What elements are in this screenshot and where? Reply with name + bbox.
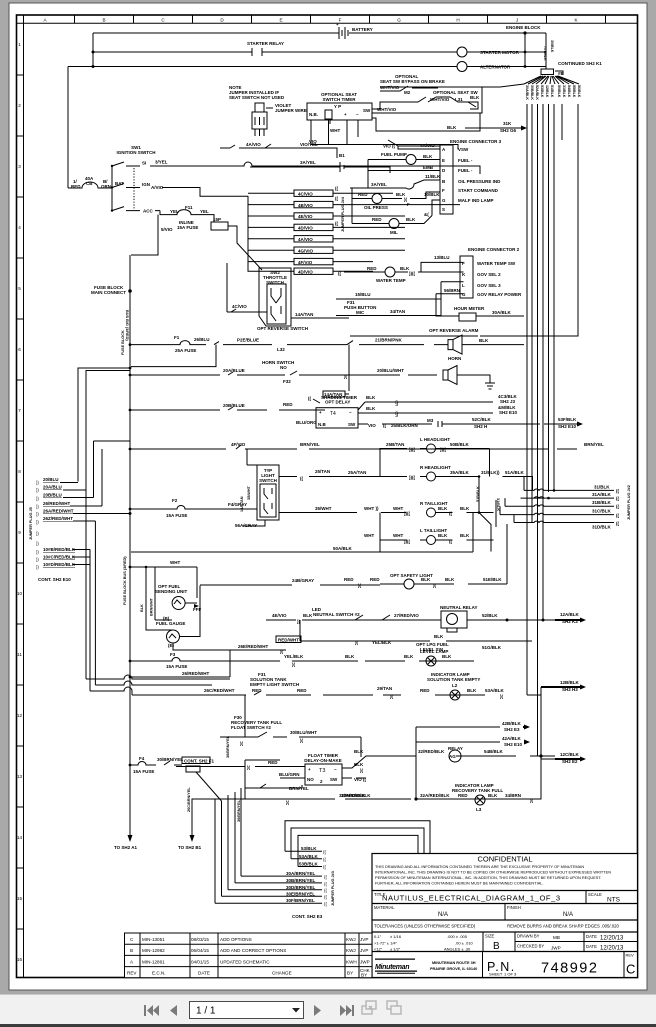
svg-text:JUMPER WIRE: JUMPER WIRE (275, 108, 307, 113)
svg-text:26C/BRN/YEL: 26C/BRN/YEL (187, 787, 191, 812)
svg-text:R HEADLIGHT: R HEADLIGHT (420, 465, 451, 470)
svg-text:SW: SW (363, 108, 371, 113)
svg-text:DATE: DATE (198, 971, 210, 976)
left number band line (23, 15, 25, 978)
svg-text:KWJ: KWJ (346, 948, 356, 953)
svg-text:RED: RED (458, 793, 468, 798)
svg-text:2: 2 (18, 103, 21, 108)
wire vio 25/blk/orn row (358, 417, 566, 429)
svg-text:30A/BLK: 30A/BLK (525, 85, 529, 100)
svg-text:4G/VIO: 4G/VIO (298, 248, 314, 253)
svg-text:SI: SI (142, 161, 146, 166)
svg-text:MATERIAL: MATERIAL (374, 905, 395, 910)
svg-text:55/BLK: 55/BLK (572, 85, 576, 98)
svg-text:REV: REV (626, 953, 635, 958)
svg-text:53A/BLK: 53A/BLK (485, 688, 505, 693)
svg-text:JVP: JVP (360, 937, 368, 942)
svg-text:M2: M2 (404, 90, 411, 95)
svg-text:J: J (516, 18, 518, 23)
wire timer sw to right (372, 87, 482, 113)
svg-text:F32: F32 (283, 379, 291, 384)
svg-text:NTS: NTS (607, 897, 621, 904)
wires j5 to lamp rows (86, 489, 230, 691)
rotated labels left of light switch (240, 485, 251, 512)
svg-text:BLK: BLK (434, 634, 444, 639)
svg-text:4A/VIO: 4A/VIO (298, 237, 313, 242)
revision rows text (127, 937, 371, 978)
svg-text:OPT REVERSE SWITCH: OPT REVERSE SWITCH (257, 326, 308, 331)
grid letter ticks (75, 15, 606, 23)
wire wht fuel feed (129, 560, 197, 620)
svg-text:32/RED/BLK: 32/RED/BLK (418, 749, 445, 754)
svg-text:SIZE: SIZE (485, 934, 495, 939)
svg-text:F3: F3 (170, 652, 176, 657)
svg-text:35/WHT: 35/WHT (247, 485, 251, 500)
svg-text:20A/BLUE: 20A/BLUE (223, 368, 245, 373)
R taillight (279, 501, 494, 517)
label optional seat sw (430, 90, 480, 102)
svg-text:L3: L3 (476, 807, 482, 812)
svg-text:10#B/RED/BLK: 10#B/RED/BLK (43, 547, 76, 552)
wire light switch feed (130, 449, 265, 526)
svg-text:SH2 E3: SH2 E3 (504, 727, 520, 732)
svg-text:12: 12 (17, 713, 23, 718)
svg-text:)(: )( (360, 768, 363, 773)
wire 496 vertical (495, 500, 497, 527)
svg-text:WHT: WHT (393, 533, 403, 538)
horn speaker top (448, 335, 462, 354)
label 7#2 tag (555, 71, 565, 76)
connector j4 column (335, 186, 338, 226)
svg-text:SWITCH: SWITCH (259, 478, 277, 483)
svg-text:5: 5 (18, 286, 21, 291)
row 53a/blk (291, 854, 322, 859)
float timer t3 (304, 753, 342, 785)
svg-text:RED: RED (268, 760, 278, 765)
svg-text:FUSE BLOCK BUS (3/RED): FUSE BLOCK BUS (3/RED) (123, 556, 127, 605)
svg-text:S: S (442, 207, 445, 212)
nested loop 53/blk wires (285, 821, 430, 867)
svg-text:PERMISSION OF MINUTEMAN INTERN: PERMISSION OF MINUTEMAN INTERNATIONAL, I… (375, 875, 601, 880)
svg-text:SEAT SWITCH NOT USED: SEAT SWITCH NOT USED (229, 95, 285, 100)
arrow to sh2 a1 (114, 815, 138, 850)
svg-text:BLK: BLK (421, 577, 431, 582)
wire 34/tan row (336, 299, 441, 316)
svg-text:JUMPER PLUG J#4: JUMPER PLUG J#4 (341, 196, 345, 232)
svg-text:25/TAN: 25/TAN (315, 469, 330, 474)
svg-text:§: § (395, 401, 398, 407)
svg-text:30/BLU/WHT: 30/BLU/WHT (290, 730, 317, 735)
fuse holder 15P (202, 215, 262, 270)
led neutral switch row (266, 607, 402, 624)
svg-text:WHT )): WHT )) (364, 506, 379, 511)
svg-text:SCALE: SCALE (588, 892, 602, 897)
svg-text:04/01/15: 04/01/15 (191, 959, 209, 964)
svg-text:)(: )( (433, 583, 436, 588)
headlight right vertical (489, 449, 491, 477)
svg-text:42B/BLK: 42B/BLK (502, 721, 522, 726)
svg-text:WHT: WHT (330, 128, 340, 133)
svg-text:BAT: BAT (115, 181, 124, 186)
svg-text:SHEET: SHEET (489, 972, 503, 977)
battery B+ (336, 22, 373, 39)
svg-text:EMB: EMB (423, 165, 434, 170)
svg-text:BLK: BLK (303, 613, 313, 618)
svg-text:RELAY: RELAY (448, 746, 463, 751)
svg-text:MALF IND LAMP: MALF IND LAMP (458, 198, 494, 203)
svg-text:CONTINUED SH2 K1: CONTINUED SH2 K1 (558, 61, 602, 66)
opt lpg row (300, 620, 532, 652)
svg-text:26Z/RED/WHT: 26Z/RED/WHT (43, 516, 73, 521)
svg-text:((: (( (335, 196, 338, 201)
svg-text:26C/RED/WHT: 26C/RED/WHT (204, 688, 235, 693)
arrow 12b/blk sh2 h3 (541, 680, 586, 695)
label 7#t/blk rotated (543, 40, 554, 61)
svg-text:F: F (407, 202, 410, 207)
ignition switch body (111, 162, 140, 212)
first page button (144, 1005, 159, 1016)
svg-text:((: (( (383, 423, 386, 428)
svg-text:WHT: WHT (170, 560, 180, 565)
lower labels underlined (43, 547, 76, 567)
svg-text:FUEL -: FUEL - (458, 168, 473, 173)
size box (483, 932, 515, 952)
svg-text:51E/BLK: 51E/BLK (483, 577, 502, 582)
ground horn (457, 375, 495, 389)
svg-text:20A/BLU: 20A/BLU (43, 485, 62, 490)
svg-text:26/BLU: 26/BLU (194, 337, 210, 342)
svg-text:35A/BLK: 35A/BLK (450, 470, 470, 475)
svg-text:51A/BLK: 51A/BLK (505, 470, 525, 475)
wire vio row (311, 145, 458, 150)
fuel gauge (156, 586, 276, 651)
svg-text:L2: L2 (452, 683, 458, 688)
confidential paragraph (375, 864, 611, 886)
svg-text:3A/YEL: 3A/YEL (371, 182, 387, 187)
wire alternator to harness (467, 66, 546, 68)
svg-text:SENDING UNIT: SENDING UNIT (155, 589, 188, 594)
svg-text:21/BRN/PNK: 21/BRN/PNK (375, 338, 403, 343)
label vio pair (309, 139, 396, 149)
f31 solution tank empty switch (250, 672, 299, 687)
svg-text:30B/BLK: 30B/BLK (530, 85, 534, 100)
svg-text:HORN SWITCH: HORN SWITCH (262, 360, 294, 365)
svg-text:.00 ± .010: .00 ± .010 (455, 941, 474, 946)
svg-text:JUMPER PLUG J#2: JUMPER PLUG J#2 (627, 485, 631, 520)
svg-text:)(: )( (240, 741, 243, 746)
svg-text:JUMPER PLUG J5: JUMPER PLUG J5 (29, 507, 33, 540)
zoom out disabled icon (362, 1001, 376, 1014)
svg-text:4: 4 (18, 225, 21, 230)
svg-text:25A/TAN: 25A/TAN (348, 470, 366, 475)
svg-text:((: (( (616, 513, 619, 518)
svg-text:13/BLU: 13/BLU (434, 255, 450, 260)
arrow 12c/blk sh2 e2 (541, 752, 586, 764)
svg-text:HORN: HORN (448, 356, 461, 361)
svg-text:RED: RED (367, 266, 377, 271)
svg-text:#B: #B (558, 71, 565, 76)
logo box (482, 952, 484, 978)
svg-text:N.B: N.B (318, 422, 327, 427)
svg-text:INTERNATIONAL, INC. THIS DRAWI: INTERNATIONAL, INC. THIS DRAWING IS NOT … (375, 870, 611, 875)
blk pair rows (358, 395, 493, 418)
rows 30x/brn/yel (241, 871, 322, 876)
svg-text:F11: F11 (185, 205, 193, 210)
wire starter relay rail (93, 51, 457, 53)
svg-text:OIL PRESS: OIL PRESS (364, 205, 388, 210)
boxed arrows 42b 42a (416, 721, 530, 799)
svg-text:CONT. SH2 F1: CONT. SH2 F1 (184, 759, 215, 764)
wire 24b/gray row (200, 578, 380, 585)
wire conn2 G 56/brn (436, 288, 464, 316)
title block outline (372, 854, 638, 978)
wire engine block drop (525, 33, 546, 69)
svg-text:C: C (626, 962, 635, 977)
throttle switch sw2 (259, 268, 291, 326)
svg-text:MIL: MIL (390, 230, 398, 235)
svg-text:FUEL GAUGE: FUEL GAUGE (156, 621, 185, 626)
svg-text:BRN/YEL: BRN/YEL (300, 442, 320, 447)
wire left bus drop (68, 33, 93, 188)
svg-text:MIC: MIC (356, 310, 365, 315)
svg-text:SH2 E10: SH2 E10 (558, 424, 577, 429)
svg-text:9: 9 (18, 530, 21, 535)
svg-text:MAIN CONNECT: MAIN CONNECT (91, 290, 126, 295)
wire acc row (155, 211, 170, 215)
svg-text:SWITCH TIMER: SWITCH TIMER (323, 97, 357, 102)
connector column j3 (323, 850, 327, 907)
svg-text:RED/WHT: RED/WHT (278, 638, 299, 643)
svg-text:4B/VIO: 4B/VIO (298, 203, 313, 208)
svg-text:WATER TEMP SW: WATER TEMP SW (477, 261, 516, 266)
svg-text:BY: BY (361, 973, 367, 978)
svg-text:31D/BLK: 31D/BLK (592, 525, 612, 530)
top letter band line (17, 22, 638, 24)
label b1 battery (330, 153, 360, 172)
svg-text:YEL/BLK: YEL/BLK (284, 654, 304, 659)
wire 25/tan headlight feed (279, 449, 390, 482)
wire optional seat sw row (372, 97, 478, 109)
svg-text:−: − (334, 767, 337, 772)
svg-text:MINUTEMAN ROUTE 3H: MINUTEMAN ROUTE 3H (432, 961, 476, 965)
wire 3a/yel (250, 167, 390, 173)
svg-text:RED: RED (372, 217, 382, 222)
svg-text:STARTER RELAY: STARTER RELAY (247, 41, 284, 46)
svg-text:((: (( (323, 857, 326, 862)
water temp sender (338, 266, 434, 283)
wire recovery bottom (455, 756, 541, 799)
svg-text:L: L (462, 283, 465, 288)
next page button (314, 1005, 321, 1016)
t3 right wires (342, 749, 391, 782)
svg-text:08/03/15: 08/03/15 (191, 937, 209, 942)
svg-text:START COMMAND: START COMMAND (458, 188, 499, 193)
relay ag row (391, 746, 555, 799)
svg-text:F4: F4 (139, 756, 145, 761)
svg-text:31K: 31K (503, 121, 512, 126)
svg-text:54B/BLK: 54B/BLK (484, 749, 504, 754)
svg-text:56/BRN: 56/BRN (444, 288, 460, 293)
connector harness top (541, 69, 554, 75)
L taillight (364, 513, 494, 545)
svg-text:53/BLK: 53/BLK (540, 85, 544, 98)
label 31K sh2 g6 arrow (465, 121, 527, 133)
svg-text:SW: SW (348, 422, 356, 427)
svg-text:E: E (279, 18, 282, 23)
svg-text:4D/VIO: 4D/VIO (298, 269, 313, 274)
label seat sw bypass on brake (380, 74, 445, 95)
svg-text:TO SH2 A1: TO SH2 A1 (114, 845, 138, 850)
svg-text:15A FUSE: 15A FUSE (133, 769, 154, 774)
svg-text:((: (( (449, 511, 452, 516)
L headlight (386, 437, 490, 453)
svg-text:>1-72” ± 1/4”: >1-72” ± 1/4” (374, 941, 398, 946)
wire timer bottom drops (311, 119, 358, 145)
svg-text:31/BLK: 31/BLK (594, 484, 610, 489)
label 4c3/blk she j3 (498, 394, 518, 415)
svg-text:11: 11 (17, 652, 22, 657)
pin box A (325, 110, 332, 119)
svg-text:51/BLK: 51/BLK (550, 85, 554, 98)
svg-text:PRAIRIE GROVE, IL 60140: PRAIRIE GROVE, IL 60140 (430, 967, 477, 971)
svg-text:)(: )( (300, 738, 303, 743)
wire 4a/vio row (220, 142, 337, 158)
grid letters (43, 18, 578, 23)
svg-text:EMPTY LIGHT SWITCH: EMPTY LIGHT SWITCH (250, 682, 299, 687)
svg-text:SEAT SW BYPASS ON BRAKE: SEAT SW BYPASS ON BRAKE (380, 79, 445, 84)
wire top battery rail (93, 32, 524, 34)
svg-text:BLK: BLK (404, 654, 414, 659)
svg-text:15: 15 (17, 896, 23, 901)
svg-text:BRN/WHT: BRN/WHT (150, 597, 154, 616)
svg-text:FLOAT SWITCH #2: FLOAT SWITCH #2 (231, 725, 271, 730)
wire reverse alarm row (350, 335, 478, 337)
svg-text:4E/VIO: 4E/VIO (272, 613, 287, 618)
svg-text:))((: ))(( (409, 475, 415, 480)
oil press sender (352, 192, 440, 210)
svg-text:BLK: BLK (460, 506, 470, 511)
svg-text:30/BRN/YEL: 30/BRN/YEL (237, 799, 241, 822)
svg-text:NAUTILUS_ELECTRICAL_DIAGRAM_1_: NAUTILUS_ELECTRICAL_DIAGRAM_1_OF_3 (382, 894, 561, 903)
svg-text:53B/BLK: 53B/BLK (299, 862, 319, 867)
svg-text:§: § (395, 412, 398, 418)
svg-text:16: 16 (17, 957, 23, 962)
rotated blk brn/wht (140, 597, 154, 616)
svg-text:)(: )( (355, 640, 358, 645)
svg-text:−: − (356, 112, 359, 117)
svg-text:SH2 E10: SH2 E10 (504, 742, 523, 747)
svg-text:25B/TAN: 25B/TAN (386, 442, 404, 447)
label sw1 ignition (117, 145, 156, 155)
wire 21/brn/pnk tail (375, 338, 524, 345)
wire seat switch bypass (380, 86, 438, 91)
R headlight (348, 465, 533, 491)
svg-text:BLU/ORG: BLU/ORG (296, 420, 317, 425)
svg-text:ANGLES ± .30: ANGLES ± .30 (444, 947, 471, 952)
indicator lamp solution tank empty (427, 672, 480, 700)
svg-text:+: + (336, 22, 339, 27)
title block h lines (372, 891, 638, 952)
svg-text:UPDATED SCHEMATIC: UPDATED SCHEMATIC (220, 959, 270, 964)
row 53b/blk (298, 862, 322, 867)
svg-text:IGNITION SWITCH: IGNITION SWITCH (117, 150, 156, 155)
svg-text:42A/BLK: 42A/BLK (502, 736, 522, 741)
svg-text:51G/BLK: 51G/BLK (482, 645, 502, 650)
svg-text:((: (( (335, 221, 338, 226)
svg-text:SW: SW (330, 777, 338, 782)
wire 3a/yel to pin E (350, 160, 440, 190)
svg-text:BLK: BLK (345, 654, 355, 659)
svg-text:.000 ± .005: .000 ± .005 (447, 934, 468, 939)
svg-text:((: (( (308, 396, 311, 401)
svg-text:20/BLU/WHT: 20/BLU/WHT (377, 368, 404, 373)
svg-text:WHT: WHT (364, 533, 374, 538)
svg-text:BLK: BLK (447, 125, 457, 130)
svg-text:BLK: BLK (442, 654, 452, 659)
svg-text:((: (( (335, 186, 338, 191)
rotated 30/brn/yel labels (187, 735, 241, 822)
svg-text:ADD AND CORRECT OPTIONS: ADD AND CORRECT OPTIONS (220, 948, 286, 953)
svg-text:))((: ))(( (409, 271, 415, 276)
svg-text:OIL PRESSURE IND: OIL PRESSURE IND (458, 179, 501, 184)
svg-text:FURTHER, ALL INFORMATION CONTA: FURTHER, ALL INFORMATION CONTAINED HEREI… (375, 881, 544, 886)
svg-text:14A/TAN: 14A/TAN (295, 312, 313, 317)
svg-text:+: + (319, 410, 322, 415)
svg-text:)(: )( (247, 765, 250, 770)
node fuse block main connect (91, 285, 132, 295)
svg-text:15A FUSE: 15A FUSE (177, 225, 198, 230)
svg-text:30E/BRN/YEL: 30E/BRN/YEL (286, 891, 315, 896)
svg-text:((: (( (300, 476, 303, 481)
svg-text:RED: RED (283, 402, 293, 407)
wire throttle out (291, 317, 349, 319)
indicator lamp recovery tank full (452, 783, 503, 812)
svg-text:SH2 E10: SH2 E10 (499, 410, 518, 415)
svg-text:12/20/13: 12/20/13 (600, 936, 624, 942)
svg-text:53/BLK: 53/BLK (301, 846, 317, 851)
svg-text:26E/RED/WHT: 26E/RED/WHT (238, 644, 269, 649)
svg-text:4C/VIO: 4C/VIO (298, 191, 313, 196)
svg-text:NEUTRAL SWITCH #2: NEUTRAL SWITCH #2 (313, 612, 360, 617)
fuse F3 row level lamp (129, 649, 474, 669)
wire conn2 F (421, 262, 464, 272)
svg-text:10#D/RED/BLK: 10#D/RED/BLK (43, 562, 76, 567)
svg-text:52A/BLK: 52A/BLK (535, 85, 539, 100)
label ignition pins (115, 160, 168, 214)
bus 4x/vio vertical (247, 196, 249, 268)
svg-text:BLK: BLK (438, 506, 448, 511)
svg-text:50A/BLK: 50A/BLK (333, 546, 353, 551)
svg-text:25/BLK/ORN: 25/BLK/ORN (391, 423, 418, 428)
svg-text:53F/BLK: 53F/BLK (558, 417, 577, 422)
svg-text:((: (( (338, 271, 341, 276)
boxed red/wht (226, 636, 301, 654)
svg-text:12B/BLK: 12B/BLK (560, 680, 580, 685)
svg-text:31A/BLK: 31A/BLK (592, 492, 612, 497)
svg-text:1 / 1: 1 / 1 (196, 1006, 216, 1017)
svg-text:REV: REV (127, 971, 137, 976)
svg-text:31B/BLK: 31B/BLK (592, 500, 612, 505)
svg-text:P2E/BLUE: P2E/BLUE (237, 338, 259, 343)
starter relay contact (247, 41, 284, 56)
svg-text:((: (( (616, 488, 619, 493)
svg-text:15A FUSE: 15A FUSE (166, 513, 187, 518)
svg-text:3/YEL: 3/YEL (155, 160, 168, 165)
svg-text:BLK: BLK (479, 338, 489, 343)
svg-text:BLK: BLK (366, 395, 376, 400)
svg-text:ACC: ACC (143, 209, 153, 214)
svg-text:SH2 G6: SH2 G6 (500, 128, 517, 133)
